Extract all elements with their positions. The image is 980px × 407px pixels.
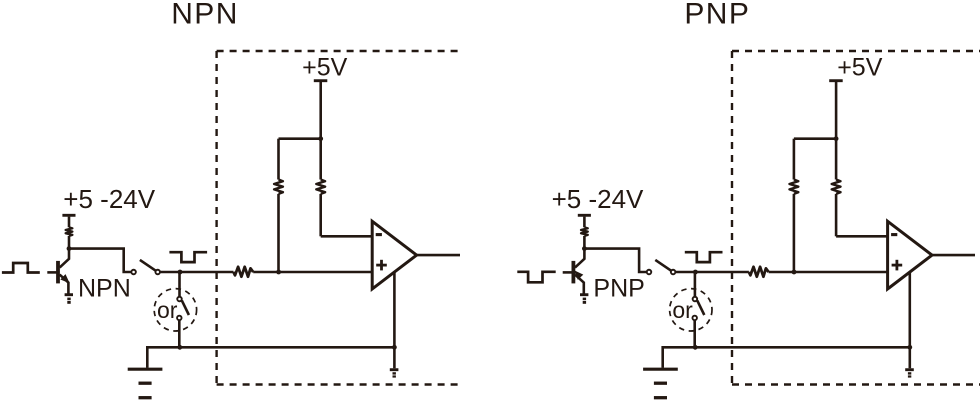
svg-text:NPN: NPN [171, 0, 239, 31]
pulse notch symbol [PNP circuit] [685, 252, 723, 262]
wire: main line right [PNP circuit] [769, 271, 888, 274]
switch S1 left contact [NPN circuit] [131, 270, 136, 275]
node: collector junction [PNP circuit] [582, 246, 587, 251]
wire: feed lower [PNP circuit] [583, 236, 586, 249]
node: or-branch to rail [NPN circuit] [177, 345, 182, 350]
wire: base lead [NPN circuit] [47, 271, 56, 274]
wire: collector branch [NPN circuit] [69, 249, 131, 272]
resistor (base feed) [NPN circuit] [66, 227, 73, 236]
svg-text:+5V: +5V [837, 54, 883, 82]
node: +5V split [NPN circuit] [318, 136, 323, 141]
wire: +5V drop [NPN circuit] [319, 82, 322, 139]
pull-up resistor R2 branch [NPN circuit] [274, 139, 283, 272]
switch S2 bottom contact [PNP circuit] [692, 316, 697, 321]
wire: or-branch upper [NPN circuit] [178, 272, 181, 297]
terminal stub below transistor [PNP circuit] [580, 295, 588, 304]
svg-text:NPN: NPN [78, 275, 131, 303]
wire: comparator ground pin [NPN circuit] [393, 272, 396, 368]
wire: +5V crossbar [NPN circuit] [279, 137, 321, 140]
resistor R1 (series) [PNP circuit] [749, 267, 769, 277]
node: +5V split [PNP circuit] [834, 136, 839, 141]
wire: ground rail [PNP circuit] [663, 346, 910, 349]
pull-up resistor R2 branch [PNP circuit] [790, 139, 799, 272]
svg-text:PNP: PNP [593, 275, 644, 303]
wire: main line left [PNP circuit] [675, 271, 749, 274]
switch S1 left contact [PNP circuit] [647, 270, 652, 275]
dashed block border [NPN circuit] [217, 51, 462, 385]
dashed circle (or) [NPN circuit] [154, 289, 196, 331]
terminal T-bar (+5/-24V feed) [NPN circuit] [62, 214, 75, 217]
node: pull-up junction [NPN circuit] [276, 270, 281, 275]
switch S2 blade [NPN circuit] [182, 300, 189, 315]
svg-text:+5 -24V: +5 -24V [552, 184, 644, 214]
input pulse waveform (PNP side, negative pulse) [PNP circuit] [517, 272, 555, 283]
wire: comparator ground pin [PNP circuit] [908, 272, 911, 368]
wire: base lead [PNP circuit] [563, 271, 572, 274]
switch S1 right contact [PNP circuit] [671, 270, 676, 275]
wire: feed upper [NPN circuit] [68, 217, 71, 228]
wire: feed lower [NPN circuit] [68, 236, 71, 249]
transistor Q1 (PNP) [PNP circuit] [573, 249, 584, 294]
op-amp U1 (comparator) [NPN circuit] [372, 221, 416, 289]
wire: collector branch [PNP circuit] [584, 249, 646, 272]
switch S2 bottom contact [NPN circuit] [177, 316, 182, 321]
ground [PNP circuit] [643, 346, 678, 398]
op-amp U1 (comparator) [PNP circuit] [888, 221, 932, 289]
terminal stub below transistor [NPN circuit] [65, 295, 73, 304]
wire: comparator output [NPN circuit] [417, 254, 460, 257]
switch S1 blade [PNP circuit] [655, 260, 672, 272]
node: or-branch junction [NPN circuit] [178, 270, 183, 275]
switch S2 blade [PNP circuit] [697, 300, 704, 315]
terminal T-bar (+5V) [NPN circuit] [314, 79, 328, 82]
node: pull-up junction [PNP circuit] [792, 270, 797, 275]
node: comparator pin to rail [NPN circuit] [392, 345, 397, 350]
wire: or-branch lower [PNP circuit] [693, 320, 696, 347]
pull-up resistor R3 branch [NPN circuit] [316, 139, 372, 237]
node: comparator pin to rail [PNP circuit] [907, 345, 912, 350]
wire: or-branch lower [NPN circuit] [178, 320, 181, 347]
svg-text:+5 -24V: +5 -24V [63, 184, 155, 214]
input pulse waveform (NPN side, positive pulse) [NPN circuit] [2, 263, 40, 273]
wire: main line left [NPN circuit] [160, 271, 234, 274]
pulse notch symbol [NPN circuit] [169, 252, 207, 262]
wire: comparator output [PNP circuit] [932, 254, 975, 257]
transistor Q1 (NPN) [NPN circuit] [58, 249, 70, 294]
dashed circle (or) [PNP circuit] [670, 289, 712, 331]
resistor R1 (series) [NPN circuit] [234, 267, 254, 277]
node: or-branch to rail [PNP circuit] [693, 345, 698, 350]
switch S2 top contact [PNP circuit] [693, 297, 698, 302]
resistor (base feed) [PNP circuit] [581, 227, 588, 236]
terminal stub below comparator [NPN circuit] [390, 370, 399, 378]
wire: feed upper [PNP circuit] [583, 217, 586, 228]
wire: +5V drop [PNP circuit] [835, 82, 838, 139]
terminal T-bar (+5V) [PNP circuit] [829, 79, 843, 82]
terminal stub below comparator [PNP circuit] [905, 370, 914, 378]
svg-text:or: or [157, 297, 178, 323]
wire: main line right [NPN circuit] [253, 271, 372, 274]
node: collector junction [NPN circuit] [67, 246, 72, 251]
switch S1 blade [NPN circuit] [140, 260, 157, 272]
pull-up resistor R3 branch [PNP circuit] [832, 139, 888, 237]
svg-text:+5V: +5V [302, 54, 348, 82]
terminal T-bar (+5/-24V feed) [PNP circuit] [578, 214, 591, 217]
svg-text:or: or [672, 297, 693, 323]
svg-text:PNP: PNP [684, 0, 750, 31]
node: or-branch junction [PNP circuit] [693, 270, 698, 275]
dashed block border [PNP circuit] [732, 51, 980, 385]
wire: +5V crossbar [PNP circuit] [794, 137, 836, 140]
switch S1 right contact [NPN circuit] [155, 270, 160, 275]
switch S2 top contact [NPN circuit] [177, 297, 182, 302]
ground [NPN circuit] [128, 346, 163, 398]
wire: ground rail [NPN circuit] [147, 346, 394, 349]
wire: or-branch upper [PNP circuit] [694, 272, 697, 297]
